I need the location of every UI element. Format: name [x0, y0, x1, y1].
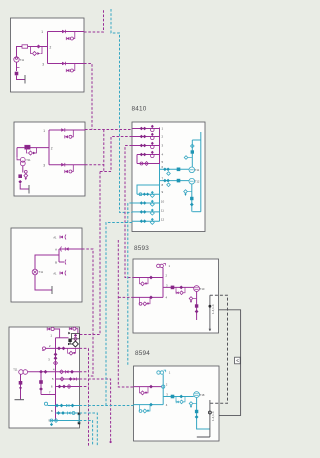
8593 gauges: [157, 264, 160, 267]
8410 row4 relief valve: [151, 151, 154, 154]
box4 gear pump: [19, 370, 24, 375]
8410 top stack diamond: [191, 144, 195, 148]
bus magenta box4 drop: [80, 348, 89, 446]
8410 row3 relief valve: [151, 142, 154, 145]
resistor R1: [22, 45, 28, 48]
8594 internal collector: [197, 400, 210, 437]
svg-text:T18: T18: [200, 393, 205, 397]
8410 row4 twin diamonds: [140, 153, 144, 157]
8594 rail: [162, 374, 164, 404]
wire box1 main rail: [17, 32, 48, 64]
8594 gauges: [157, 371, 160, 374]
drain tick: [17, 67, 20, 69]
8410 row10 wire: [132, 202, 160, 204]
8410 row5 diamond: [145, 162, 149, 166]
8410 row7 bypass: [167, 183, 171, 187]
pump T11 box3: [32, 269, 38, 275]
bypass branch b1 wire: [31, 47, 43, 54]
box4 row3 stack: [54, 353, 58, 357]
orifice D1: [37, 45, 41, 49]
box4 row4 diamonds: [39, 370, 43, 374]
bus cyan top stub: [111, 9, 132, 212]
8410 row5 circle: [140, 162, 143, 165]
wire pump down box2: [22, 166, 24, 173]
8410 row9 twin diamonds: [143, 193, 146, 196]
bus magenta box4row6 stub: [80, 386, 89, 388]
8593 drain side valve: [189, 297, 193, 301]
8593 rail: [162, 268, 164, 298]
box4 relief valve 2: [69, 327, 72, 330]
bus cyan box4row10 drop: [80, 421, 93, 447]
bus magenta row1 feed: [85, 129, 132, 131]
check valve V1: [62, 30, 66, 34]
8593 collector arrow: [209, 329, 212, 332]
box4 row1 wire: [56, 337, 69, 339]
port A paren: [61, 247, 62, 252]
bus magenta long left drop: [80, 172, 101, 335]
8594 row2 bypass wire: [140, 387, 149, 393]
enclosure 8410: [132, 122, 205, 232]
check valve box2 V2: [61, 163, 65, 167]
wire box2 main rail: [17, 130, 49, 165]
bus magenta 8593row4 feed: [118, 240, 133, 387]
8410 row2 relief valve: [151, 133, 154, 136]
8593 row2 diamond: [149, 276, 153, 280]
bus magenta top stub: [84, 9, 104, 32]
8410 row11 twin diamonds: [140, 210, 144, 214]
box4 row2 wire: [46, 347, 80, 349]
8410 row6 wire: [160, 168, 190, 170]
pilot branch p1 wire: [73, 32, 74, 39]
8593 collector junction: [209, 305, 212, 308]
svg-text:T11: T11: [20, 58, 25, 62]
8410 motor T12: [189, 178, 195, 184]
box4 row9 node: [78, 413, 81, 416]
wire pump to rail box3: [35, 255, 59, 269]
8594 row4 wire: [134, 404, 164, 406]
box4 row2 circle: [43, 347, 46, 350]
tank wall box1: [24, 75, 26, 84]
svg-text:1-4,1-4: 1-4,1-4: [211, 304, 215, 314]
svg-text:T11: T11: [195, 168, 200, 172]
bus magenta box2p3 link: [85, 164, 104, 166]
accumulator block A1: [15, 72, 19, 76]
enclosure box4: [9, 327, 80, 428]
8593 motor T10: [194, 286, 200, 292]
bus magenta box4row5 drop: [80, 379, 111, 442]
port A wire: [59, 248, 82, 250]
8410 row2 twin diamonds: [140, 135, 144, 139]
box4 black arrow 2: [68, 343, 70, 346]
svg-text:2: 2: [51, 147, 53, 151]
8593 drain diamond: [195, 310, 199, 314]
8594 drain side valve: [189, 402, 193, 406]
8410 row9 wire: [137, 193, 160, 195]
enclosure box3: [11, 228, 82, 302]
8594 row4 bypass: [139, 410, 142, 413]
8410 row6 block: [177, 168, 181, 172]
box4 relief valve 2 wire: [76, 329, 78, 334]
bus cyan row10 feed: [128, 203, 132, 366]
8410 row10 relief valve: [151, 200, 154, 203]
box4 row10 valves: [50, 419, 53, 422]
8410 row6 bypass: [167, 172, 171, 176]
svg-text:A1: A1: [53, 271, 57, 275]
8410 row6 twin diamonds: [163, 168, 167, 172]
svg-text:1-4,1-4: 1-4,1-4: [211, 411, 215, 421]
bus magenta box3A drop: [82, 249, 93, 376]
8410 bottom stack wire: [191, 184, 193, 212]
svg-text:8594: 8594: [135, 350, 150, 357]
sheet ref box A: [235, 357, 241, 364]
svg-text:T12: T12: [195, 179, 200, 183]
8410 top stack block: [191, 150, 194, 153]
bus magenta row2 feed: [111, 137, 132, 172]
enclosure box1: [11, 18, 85, 92]
bus magenta mid drop: [103, 130, 105, 172]
box4 row8 wire: [48, 405, 80, 407]
8410 top stack side valve: [184, 156, 188, 160]
8410 bottom stack diamond: [190, 203, 194, 207]
coupling A1 bottom symbol: [60, 272, 63, 275]
8410 row9 relief valve: [151, 191, 154, 194]
bus gray 8593 to 8594 dashed: [210, 295, 228, 403]
box4 row9 valves: [57, 411, 61, 415]
8594 row2 wire: [134, 386, 162, 388]
bus magenta box4row4 stub: [80, 371, 89, 373]
filter block F2: [25, 145, 30, 149]
8410 row5 wire: [137, 163, 160, 165]
pilot branch wire2: [72, 165, 73, 172]
bus magenta row3 feed: [125, 146, 133, 278]
bus gray 8593 solid loop: [219, 310, 241, 416]
8594 row3 diamond: [179, 395, 183, 399]
wire box1 port3: [48, 63, 85, 65]
pilot valve2: [65, 170, 68, 173]
8593 internal collector: [209, 295, 211, 331]
8594 row4 diamond: [149, 403, 153, 407]
8593 motor drain: [196, 292, 198, 321]
pilot valve p1 circle: [70, 37, 73, 40]
box4 row5 wire: [56, 378, 80, 380]
enclosure box2: [14, 122, 85, 196]
svg-text:T10: T10: [200, 287, 205, 291]
8594 collector circle: [208, 411, 211, 414]
8410 collector rail cyan: [159, 164, 161, 221]
tank wall box2: [28, 185, 30, 194]
box4 left drop wire: [40, 372, 42, 395]
check valve box2 V1: [61, 128, 65, 132]
8593 row4 bypass: [139, 302, 142, 305]
box4 relief valve 1: [47, 328, 50, 331]
8594 row3 bypass wire: [176, 397, 185, 402]
8410 row7 block: [177, 179, 181, 183]
port A check: [65, 247, 68, 250]
8593 row3 bypass: [180, 291, 184, 295]
svg-text:8593: 8593: [134, 245, 149, 252]
8593 row3 block: [171, 286, 175, 290]
port B wire: [59, 261, 64, 263]
8594 drain diamond: [195, 415, 199, 419]
8410 motor T11: [189, 167, 195, 173]
8593 row2 wire: [133, 277, 163, 279]
wire A-B vertical: [58, 249, 60, 262]
8410 row4 wire: [137, 154, 160, 156]
8410 row10 twin diamonds: [140, 201, 144, 205]
wire box1 port1: [48, 31, 85, 33]
svg-text:A: A: [55, 248, 57, 252]
8593 gauge link: [162, 267, 163, 269]
svg-text:11: 11: [161, 208, 164, 212]
check valve V2: [62, 62, 66, 66]
enclosure 8594: [134, 366, 220, 441]
8410 row2 wire: [132, 136, 160, 138]
bus magenta box1p3 drop: [84, 64, 92, 130]
coupling A1 top symbol: [60, 236, 63, 239]
svg-text:1: 1: [41, 30, 43, 34]
svg-text:T11: T11: [26, 158, 31, 162]
8594 row4 bypass wire: [140, 405, 151, 411]
box4 row2 bypass wire: [68, 348, 76, 353]
box4 row4 right valves: [60, 370, 64, 374]
box4 row4 wire: [28, 371, 80, 373]
box4 row6 valves: [58, 385, 62, 389]
box4 cluster rect: [72, 334, 80, 339]
box4 cluster circle: [74, 337, 77, 340]
svg-text:T11: T11: [13, 368, 18, 372]
wire box2 port1: [49, 129, 85, 131]
8594 row3 block: [171, 395, 175, 399]
wire to tank: [17, 76, 26, 80]
svg-text:A1: A1: [53, 235, 57, 239]
box4 row1 black square: [68, 339, 71, 342]
box4 row10 node: [78, 422, 81, 425]
8593 row4 diamond: [149, 296, 153, 300]
wire pump down box3: [35, 275, 52, 290]
8594 row2 bypass: [141, 391, 145, 395]
svg-text:B: B: [55, 261, 57, 265]
8410 row7 wire: [160, 180, 190, 182]
box4 pump drain: [20, 374, 22, 399]
wire rail to pump: [17, 157, 20, 160]
8410 row11 relief valve: [151, 209, 154, 212]
box4 row10 wire: [50, 420, 80, 422]
8410 bottom stack block: [190, 197, 193, 200]
box4 row8 circle: [44, 402, 47, 405]
svg-text:2: 2: [50, 46, 52, 50]
8410 row1 relief valve: [151, 125, 154, 128]
bypass valve: [29, 151, 33, 155]
bypass valve b1: [33, 52, 37, 56]
svg-text:3: 3: [42, 63, 44, 67]
pilot branch wire: [72, 130, 73, 137]
8594 row2 diamond: [149, 385, 153, 389]
8410 top stack wire: [191, 140, 193, 167]
8410 row3 twin diamonds: [140, 144, 144, 148]
bypass branch wire: [27, 148, 37, 153]
8593 row2 bypass wire: [140, 278, 149, 284]
svg-text:T11: T11: [39, 270, 44, 274]
8410 row11 wire: [132, 211, 160, 213]
8410 row1 wire: [132, 128, 160, 130]
8593 row4 bypass wire: [140, 297, 151, 303]
bus magenta 8593row4 branch: [118, 296, 133, 298]
bus cyan row12 feed: [106, 223, 132, 406]
gear pump T11 box2: [20, 157, 25, 162]
8410 row4-5 link: [136, 155, 138, 164]
8410 collector rail magenta: [159, 128, 161, 165]
8410 row3 wire: [132, 145, 160, 147]
8410 row8 link: [137, 185, 160, 194]
bus cyan box4row8 link: [80, 405, 134, 407]
bus cyan box4row9 drop: [80, 413, 98, 446]
box4 row9 wire: [56, 412, 80, 414]
box4 cluster diamond: [74, 334, 77, 337]
enclosure 8593: [133, 259, 219, 333]
8593 row3 bypass wire: [176, 287, 185, 292]
8410 loop bottom: [192, 211, 201, 213]
bus magenta drop end node: [110, 441, 112, 443]
wire box2 port3: [49, 164, 85, 166]
8410 row12 relief valve: [151, 218, 154, 221]
box4 left stack: [39, 380, 43, 384]
8594 row2 junction circle: [162, 385, 165, 388]
pilot valve p1 arrow: [66, 37, 69, 40]
svg-text:8410: 8410: [132, 106, 147, 113]
8593 row3 wire: [163, 286, 194, 288]
8594 row3 wire: [163, 396, 194, 398]
8410 row9 circle: [139, 193, 142, 196]
relief diamond: [24, 174, 28, 178]
box4 row7 wire: [41, 394, 56, 396]
box4 row1 black arrow: [68, 332, 70, 335]
8410 row1 twin diamonds: [140, 127, 144, 131]
box4 row1 black diamond: [72, 341, 78, 347]
8410 loop top: [192, 132, 201, 212]
wire to tank box2: [20, 184, 29, 189]
pilot valve p2: [66, 69, 69, 72]
tank wall box3: [51, 286, 53, 294]
8593 row4 wire: [133, 296, 163, 298]
box4 row8 valves: [55, 404, 59, 408]
8594 motor T18: [194, 392, 200, 398]
accumulator block box2: [18, 174, 22, 178]
box4 row2 bypass: [69, 351, 73, 355]
box4 right link: [78, 414, 80, 423]
8594 row3 bypass: [180, 400, 184, 404]
svg-text:1: 1: [43, 129, 45, 133]
wire pump riser: [16, 148, 18, 157]
box4 black link wires: [70, 340, 75, 344]
8410 row12 wire: [132, 220, 160, 222]
bus magenta jog: [100, 171, 111, 173]
filled diamond drain: [18, 180, 22, 184]
svg-text:12: 12: [161, 218, 165, 222]
relief circle: [24, 170, 27, 173]
pilot branch p2 wire: [73, 64, 74, 71]
box4 row10 drop: [50, 423, 53, 426]
box4 row5 valves: [60, 377, 64, 381]
8410 bottom side valve: [184, 190, 188, 194]
8594 drain block: [195, 410, 198, 413]
8593 row3 diamond: [179, 286, 183, 290]
wire pump down: [16, 62, 18, 71]
box4 drain stack: [19, 381, 23, 385]
box4 tank wall: [15, 399, 25, 401]
svg-text:10: 10: [161, 200, 165, 204]
box4 row2 diamonds: [57, 347, 61, 351]
8593 drain block: [195, 304, 198, 307]
8410 row12 twin diamonds: [140, 219, 144, 223]
8593 row2 bypass: [141, 282, 145, 286]
box4 row6 wire: [56, 386, 80, 388]
8594 motor drain: [197, 398, 210, 430]
pilot valve: [65, 135, 68, 138]
8410 row7 twin diamonds: [163, 179, 167, 183]
pump T11 box1: [14, 57, 19, 62]
svg-text:3: 3: [43, 164, 45, 168]
box4 relief valve 1 wire: [54, 329, 59, 338]
box4 main rail: [55, 338, 57, 421]
